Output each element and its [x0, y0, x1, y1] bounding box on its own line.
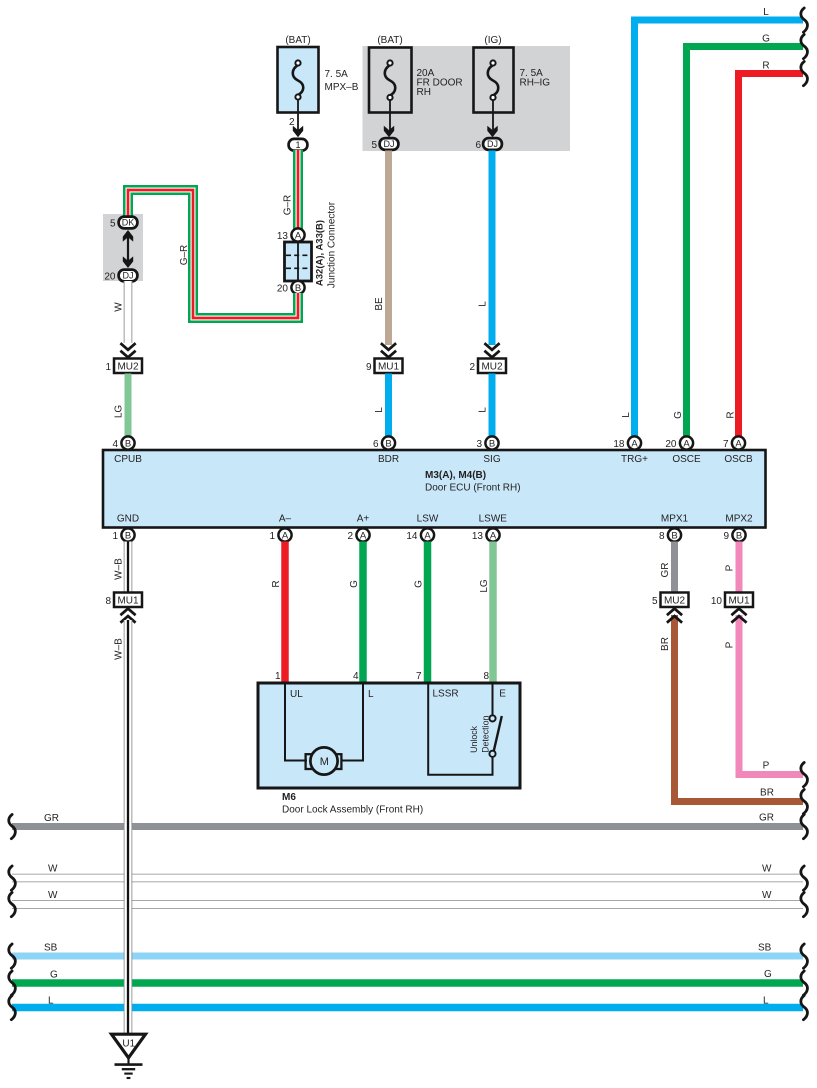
svg-text:BR: BR	[660, 637, 671, 651]
svg-text:R: R	[726, 411, 737, 418]
break symbols wire L bus	[9, 996, 808, 1020]
svg-text:3: 3	[476, 439, 482, 450]
svg-text:6: 6	[373, 439, 379, 450]
label W (bus1 left)	[48, 864, 58, 875]
label G (rotated, LSW)	[414, 580, 425, 588]
svg-text:1: 1	[112, 531, 118, 542]
lock assembly name label	[282, 792, 423, 816]
svg-text:G: G	[414, 580, 425, 588]
svg-text:G–R: G–R	[283, 195, 294, 216]
svg-text:10: 10	[711, 596, 723, 607]
wire W below DJ	[124, 281, 133, 343]
svg-text:5: 5	[371, 140, 377, 151]
svg-text:MPX1: MPX1	[661, 514, 689, 525]
svg-text:7: 7	[723, 439, 729, 450]
svg-text:A: A	[631, 438, 638, 449]
svg-text:LG: LG	[114, 405, 125, 419]
ECU pin 2 A A+	[347, 514, 369, 542]
svg-text:P: P	[725, 564, 736, 571]
svg-text:G: G	[762, 34, 770, 45]
shield connector 1 MU2	[105, 359, 142, 374]
wire GR from MPX1 to 5 MU2	[671, 542, 678, 593]
svg-text:G: G	[50, 970, 58, 981]
svg-text:G: G	[673, 411, 684, 419]
label BR (right edge)	[760, 788, 774, 799]
fuse F2 value label	[417, 68, 463, 98]
svg-text:5: 5	[652, 596, 658, 607]
label GR (bus left)	[44, 813, 59, 824]
svg-text:SIG: SIG	[483, 454, 500, 465]
wire P from MPX2 to 10 MU1	[736, 542, 743, 593]
fuse F3 7.5A RH-IG box	[474, 48, 514, 113]
wire fuse F1 to connector 1	[297, 99, 299, 130]
label SB (bus right)	[758, 943, 772, 954]
svg-text:L: L	[763, 7, 769, 18]
connector 1 oval	[289, 139, 308, 151]
svg-text:14: 14	[406, 531, 418, 542]
ECU name label	[425, 470, 521, 494]
svg-text:DJ: DJ	[384, 139, 395, 149]
wire L bus	[12, 1004, 803, 1012]
wire R (red) from right edge to OSCB	[739, 74, 804, 437]
svg-text:TRG+: TRG+	[621, 454, 648, 465]
wire P from 10 MU1 to right edge	[739, 615, 803, 775]
gray background block (DK/DJ connector area)	[103, 214, 143, 281]
svg-text:L: L	[374, 407, 385, 413]
svg-text:LSWE: LSWE	[479, 514, 508, 525]
junction connector A32(A), A33(B) box	[285, 242, 312, 281]
break symbols wire W bus 1	[9, 866, 808, 890]
wire fuse F3 to connector DJ	[492, 100, 494, 131]
unlock detection switch contacts	[489, 715, 495, 757]
junction connector A32(A)/A33(B) pin A	[277, 228, 305, 241]
svg-text:(BAT): (BAT)	[377, 35, 402, 46]
svg-text:W: W	[114, 302, 125, 312]
svg-text:G–R: G–R	[179, 245, 190, 266]
svg-text:8: 8	[483, 671, 489, 682]
svg-text:E: E	[499, 689, 506, 700]
inner wire motor to pin4	[341, 685, 363, 761]
svg-text:20: 20	[665, 439, 677, 450]
svg-text:2: 2	[289, 117, 295, 128]
gray background block (fuse area BAT/IG)	[363, 46, 571, 151]
wire BR from 5 MU2 to right edge	[675, 615, 804, 802]
label (IG) fuse F3	[484, 35, 501, 46]
ECU pin 3 B SIG	[476, 436, 500, 465]
break symbol on wire BR right edge	[801, 790, 808, 814]
ECU pin 1 A A-	[269, 514, 291, 542]
break symbol on wire R right edge	[801, 62, 808, 86]
svg-text:6: 6	[475, 140, 481, 151]
svg-text:LG: LG	[479, 579, 490, 593]
fuse F3 value label	[520, 68, 551, 89]
lock pin 8 label	[483, 671, 489, 682]
fuse F3 element symbol	[488, 60, 499, 100]
label G (bus right)	[764, 969, 772, 980]
svg-text:BR: BR	[760, 788, 774, 799]
svg-text:M3(A), M4(B): M3(A), M4(B)	[425, 470, 486, 481]
Door ECU (Front RH) box M3(A) M4(B)	[103, 450, 766, 528]
shield connector 10 MU1	[711, 593, 753, 608]
chevrons into 9 MU1	[381, 343, 396, 357]
wire G from A+ to lock pin 4	[359, 542, 367, 685]
lock pin 4 label	[353, 671, 359, 682]
label W (bus1 right)	[762, 864, 772, 875]
svg-text:A–: A–	[279, 514, 292, 525]
connector DJ pin 5 oval	[371, 138, 398, 151]
svg-text:Door Lock Assembly (Front RH): Door Lock Assembly (Front RH)	[282, 805, 423, 816]
shield connector 8 MU1	[105, 593, 142, 608]
svg-text:W: W	[762, 890, 772, 901]
svg-text:A+: A+	[357, 514, 370, 525]
svg-text:A32(A), A33(B): A32(A), A33(B)	[315, 220, 326, 286]
svg-text:CPUB: CPUB	[114, 454, 142, 465]
label L (bus right)	[763, 996, 769, 1007]
break symbols wire W bus 2	[9, 893, 808, 917]
svg-text:M6: M6	[282, 792, 296, 803]
chevrons out of 10 MU1	[731, 609, 746, 623]
wire G (green) from right edge to OSCE	[687, 47, 804, 437]
label GR (bus right)	[759, 813, 774, 824]
svg-text:RH–IG: RH–IG	[520, 78, 551, 89]
label G (rotated, A+)	[349, 580, 360, 588]
svg-text:GR: GR	[759, 813, 774, 824]
arrow into connector 5 DJ	[384, 126, 394, 138]
svg-text:9: 9	[366, 362, 372, 373]
ground U1 triangle	[112, 1034, 146, 1058]
svg-text:W: W	[762, 864, 772, 875]
junction connector pin B	[277, 281, 305, 294]
wire W-B from 8 MU1 to ground U1	[124, 620, 133, 1033]
svg-text:A: A	[683, 438, 690, 449]
svg-text:A: A	[360, 530, 367, 541]
svg-text:Unlock: Unlock	[469, 725, 479, 752]
shield connector 2 MU2	[469, 359, 506, 374]
svg-text:2: 2	[469, 362, 475, 373]
label L (top right)	[763, 7, 769, 18]
label L (rotated, upper SIG)	[478, 301, 489, 307]
svg-text:(IG): (IG)	[484, 35, 501, 46]
ECU pin 8 B MPX1	[659, 514, 689, 542]
chevrons out of 8 MU1	[120, 609, 135, 623]
wire SB bus	[12, 953, 803, 960]
label G (top right)	[762, 34, 770, 45]
ECU pin 18 A TRG+	[613, 436, 648, 465]
svg-text:W–B: W–B	[114, 638, 125, 660]
inner wire pin8 to switch	[492, 685, 494, 716]
svg-text:7: 7	[416, 671, 422, 682]
svg-text:MU1: MU1	[728, 596, 750, 607]
svg-text:4: 4	[353, 671, 359, 682]
svg-text:8: 8	[659, 531, 665, 542]
label G (rotated, above pin 20)	[673, 411, 684, 419]
svg-text:B: B	[385, 438, 391, 449]
wire BE from 5 DJ to 9 MU1	[385, 151, 392, 346]
arrow into connector 1	[293, 126, 303, 138]
svg-text:G: G	[349, 580, 360, 588]
wire W bus 2	[12, 900, 803, 909]
svg-text:B: B	[125, 530, 131, 541]
svg-text:18: 18	[613, 439, 625, 450]
svg-text:1: 1	[105, 362, 111, 373]
svg-text:MU1: MU1	[117, 596, 139, 607]
svg-text:2: 2	[347, 531, 353, 542]
label LG (rotated)	[114, 405, 125, 419]
ECU pin 20 A OSCE	[665, 436, 701, 465]
svg-text:W–B: W–B	[114, 558, 125, 580]
svg-text:GR: GR	[44, 813, 59, 824]
break symbol on wire P right edge	[801, 763, 808, 787]
svg-text:MU2: MU2	[664, 596, 686, 607]
label P (right edge)	[763, 761, 770, 772]
ECU pin 6 B BDR	[373, 436, 399, 465]
svg-text:MU2: MU2	[481, 362, 503, 373]
svg-text:SB: SB	[44, 943, 58, 954]
chevrons into 2 MU2	[484, 343, 499, 357]
svg-text:A: A	[490, 530, 497, 541]
label L (bus left)	[48, 996, 54, 1007]
label GR (rotated)	[660, 563, 671, 578]
svg-text:LSSR: LSSR	[433, 689, 459, 700]
svg-text:SB: SB	[758, 943, 772, 954]
pin 2 label (fuse F1 output)	[289, 117, 295, 128]
ECU pin 9 B MPX2	[723, 514, 753, 542]
svg-text:OSCB: OSCB	[724, 454, 753, 465]
svg-text:20: 20	[104, 272, 116, 283]
wire LG to CPUB	[125, 374, 132, 437]
shield connector 5 MU2	[652, 593, 689, 608]
fuse F1 7.5A MPX-B box	[278, 47, 319, 113]
label R (rotated)	[271, 580, 282, 587]
lock pin 1 label	[275, 671, 281, 682]
connector DJ pin 20 oval	[104, 270, 137, 283]
arrow into connector 6 DJ	[487, 126, 497, 138]
svg-text:L: L	[621, 412, 632, 418]
label W (bus2 left)	[48, 890, 58, 901]
label G (bus left)	[50, 970, 58, 981]
unlock detection switch arm	[494, 716, 502, 751]
svg-text:A: A	[735, 438, 742, 449]
svg-text:R: R	[762, 61, 769, 72]
ECU pin 7 A OSCB	[723, 436, 753, 465]
svg-text:M: M	[320, 756, 329, 768]
svg-text:MPX–B: MPX–B	[325, 82, 359, 93]
label A32(A), A33(B) (rotated)	[315, 220, 326, 286]
svg-text:1: 1	[295, 140, 300, 150]
svg-text:Door ECU (Front RH): Door ECU (Front RH)	[425, 483, 521, 494]
svg-text:GR: GR	[660, 563, 671, 578]
svg-text:B: B	[671, 530, 677, 541]
label W-B (rotated, lower)	[114, 638, 125, 660]
svg-text:13: 13	[472, 531, 484, 542]
svg-text:OSCE: OSCE	[672, 454, 701, 465]
inner wire pin7 to switch	[428, 685, 492, 775]
svg-text:A: A	[424, 530, 431, 541]
chevrons into 1 MU2	[120, 343, 135, 357]
svg-text:Detection: Detection	[481, 716, 491, 753]
svg-text:9: 9	[723, 531, 729, 542]
wire G bus	[12, 979, 803, 987]
svg-text:B: B	[736, 530, 742, 541]
label Unlock Detection (rotated)	[469, 716, 490, 753]
svg-text:UL: UL	[290, 689, 303, 700]
wire GR bus	[12, 823, 803, 830]
svg-text:P: P	[763, 761, 770, 772]
svg-text:1: 1	[269, 531, 275, 542]
wire L from 6 DJ to 2 MU2	[489, 151, 496, 346]
inner wire pin1 to motor	[285, 685, 307, 761]
break symbols wire SB bus	[9, 944, 808, 968]
svg-text:GND: GND	[117, 514, 139, 525]
svg-text:RH: RH	[417, 87, 431, 98]
svg-text:A: A	[282, 530, 289, 541]
svg-text:BDR: BDR	[378, 454, 399, 465]
svg-text:LSW: LSW	[417, 514, 439, 525]
wire fuse F2 to connector DJ	[389, 100, 391, 131]
label W-B (rotated, upper)	[114, 558, 125, 580]
label P (rotated, lower)	[725, 641, 736, 648]
svg-text:DJ: DJ	[487, 139, 498, 149]
label BE (rotated)	[374, 297, 385, 311]
label LG (rotated, LSWE)	[479, 579, 490, 593]
label L (rotated, SIG)	[478, 407, 489, 413]
svg-text:U1: U1	[122, 1039, 135, 1050]
label W (rotated)	[114, 302, 125, 312]
fuse F1 element symbol	[293, 60, 304, 99]
lock terminal LSSR label	[433, 689, 459, 700]
svg-text:BE: BE	[374, 297, 385, 311]
fuse F2 element symbol	[385, 60, 396, 100]
svg-text:MU2: MU2	[117, 362, 139, 373]
fuse F1 value label	[325, 69, 359, 93]
svg-text:20: 20	[277, 283, 289, 294]
shield connector 9 MU1	[366, 359, 403, 374]
svg-text:L: L	[48, 996, 54, 1007]
Door Lock Assembly (Front RH) box M6	[258, 683, 520, 788]
label L (rotated, BDR)	[374, 407, 385, 413]
wire L to SIG	[489, 374, 496, 437]
svg-text:(BAT): (BAT)	[285, 35, 310, 46]
wire G from LSW to lock pin 7	[424, 542, 432, 685]
label G-R (rotated, above junction A)	[283, 195, 294, 216]
wire W-B from GND to 8 MU1	[124, 542, 133, 593]
svg-text:7. 5A: 7. 5A	[325, 69, 349, 80]
svg-text:W: W	[48, 890, 58, 901]
wire G-R from connector 1 to junction A	[293, 150, 303, 229]
ground symbol hatching	[115, 1058, 143, 1078]
svg-text:L: L	[368, 689, 374, 700]
break symbols wire GR bus	[9, 815, 808, 839]
ECU pin 1 B GND	[112, 514, 139, 542]
svg-text:L: L	[478, 407, 489, 413]
label Junction Connector (rotated)	[327, 201, 338, 288]
break symbol on wire L right edge	[801, 8, 808, 32]
label G-R (rotated, mid elbow)	[179, 245, 190, 266]
lock terminal UL label	[290, 689, 303, 700]
svg-text:L: L	[478, 301, 489, 307]
label L (rotated, above pin 18)	[621, 412, 632, 418]
label (BAT) fuse F1	[285, 35, 310, 46]
wire R from A- to lock pin 1	[281, 542, 289, 685]
label SB (bus left)	[44, 943, 58, 954]
svg-text:4: 4	[112, 439, 118, 450]
ECU pin 13 A LSWE	[472, 514, 507, 542]
svg-text:B: B	[489, 438, 495, 449]
lock pin 7 label	[416, 671, 422, 682]
svg-text:B: B	[295, 283, 301, 294]
break symbol on wire G right edge	[801, 35, 808, 59]
ECU pin 4 B CPUB	[112, 436, 142, 465]
svg-text:L: L	[763, 996, 769, 1007]
svg-text:13: 13	[277, 231, 289, 242]
label W (bus2 right)	[762, 890, 772, 901]
label R (rotated, above pin 7)	[726, 411, 737, 418]
wire LG from LSWE to lock pin 8	[489, 542, 497, 685]
wire W bus 1	[12, 874, 803, 883]
svg-text:MPX2: MPX2	[725, 514, 753, 525]
svg-text:MU1: MU1	[378, 362, 400, 373]
break symbols wire G bus	[9, 971, 808, 995]
svg-text:5: 5	[110, 219, 116, 230]
double arrow DK to DJ	[123, 230, 133, 268]
wire L to BDR	[385, 374, 392, 437]
connector DK pin 5 oval	[110, 217, 137, 230]
connector DJ pin 6 oval	[475, 138, 501, 151]
wire L (blue) from right edge to TRG+	[635, 20, 804, 436]
svg-text:1: 1	[275, 671, 281, 682]
label R (top right)	[762, 61, 769, 72]
label P (rotated, upper)	[725, 564, 736, 571]
lock terminal L label	[368, 689, 374, 700]
svg-text:DK: DK	[122, 218, 135, 228]
svg-text:P: P	[725, 641, 736, 648]
motor M brushes	[306, 754, 342, 769]
svg-text:R: R	[271, 580, 282, 587]
svg-text:DJ: DJ	[123, 271, 134, 281]
svg-text:B: B	[125, 438, 131, 449]
fuse F2 20A FR DOOR RH box	[369, 48, 412, 113]
label (BAT) fuse F2	[377, 35, 402, 46]
svg-text:Junction Connector: Junction Connector	[327, 201, 338, 288]
svg-text:W: W	[48, 864, 58, 875]
svg-text:8: 8	[105, 596, 111, 607]
label BR (rotated)	[660, 637, 671, 651]
motor M circle	[310, 747, 337, 774]
svg-text:G: G	[764, 969, 772, 980]
chevrons out of 5 MU2	[667, 609, 682, 623]
wire G-R from junction B to connector DK	[128, 190, 298, 318]
ECU pin 14 A LSW	[406, 514, 439, 542]
lock terminal E label	[499, 689, 506, 700]
svg-text:A: A	[295, 230, 302, 241]
